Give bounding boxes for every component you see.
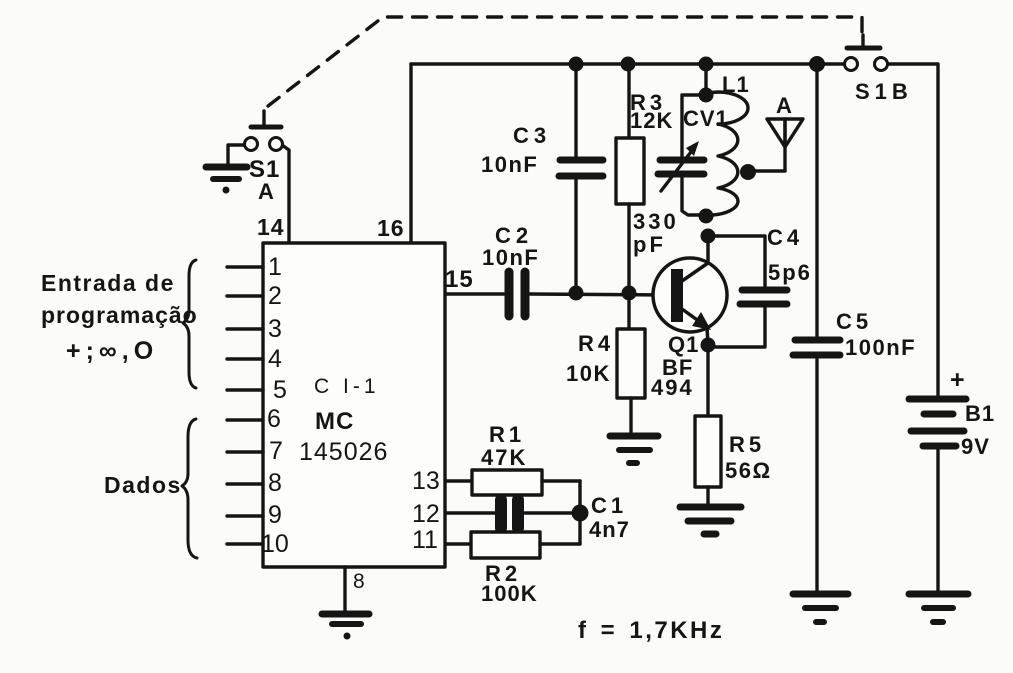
svg-text:9: 9: [268, 501, 282, 529]
svg-text:330: 330: [633, 209, 679, 234]
svg-text:100K: 100K: [481, 581, 538, 606]
svg-text:A: A: [258, 179, 275, 204]
svg-text:145026: 145026: [299, 438, 388, 466]
svg-text:MC: MC: [315, 408, 354, 435]
svg-text:f = 1,7KHz: f = 1,7KHz: [578, 617, 724, 644]
svg-text:R1: R1: [489, 422, 525, 447]
svg-text:56Ω: 56Ω: [725, 458, 772, 483]
svg-text:pF: pF: [633, 232, 666, 257]
svg-text:100nF: 100nF: [845, 335, 916, 360]
svg-text:L1: L1: [722, 72, 750, 97]
svg-text:3: 3: [268, 315, 282, 343]
svg-text:1: 1: [268, 253, 282, 281]
svg-text:+;∞,O: +;∞,O: [66, 337, 158, 365]
svg-text:15: 15: [445, 266, 474, 293]
svg-text:Entrada de: Entrada de: [41, 270, 175, 296]
svg-text:4n7: 4n7: [589, 517, 630, 542]
svg-text:CV1: CV1: [683, 106, 729, 131]
svg-text:10: 10: [261, 530, 289, 558]
svg-text:14: 14: [257, 214, 285, 240]
svg-text:9V: 9V: [961, 434, 990, 459]
svg-text:6: 6: [267, 405, 281, 433]
svg-text:+: +: [950, 366, 966, 394]
svg-text:C5: C5: [836, 309, 872, 334]
svg-text:494: 494: [651, 375, 694, 400]
svg-text:C1: C1: [591, 493, 627, 518]
svg-text:10nF: 10nF: [482, 245, 539, 270]
svg-text:5p6: 5p6: [768, 260, 812, 285]
svg-text:B1: B1: [965, 401, 995, 426]
svg-text:Q1: Q1: [668, 332, 699, 357]
svg-text:47K: 47K: [481, 445, 527, 470]
svg-text:R5: R5: [729, 432, 765, 457]
svg-text:A: A: [776, 93, 793, 118]
svg-text:11: 11: [412, 526, 438, 554]
svg-text:S1B: S1B: [855, 79, 913, 104]
svg-text:4: 4: [268, 345, 282, 373]
svg-text:2: 2: [268, 282, 282, 310]
svg-text:Dados: Dados: [104, 472, 182, 498]
svg-text:10nF: 10nF: [481, 152, 538, 177]
svg-text:C3: C3: [513, 123, 551, 148]
svg-text:16: 16: [377, 215, 405, 241]
svg-text:13: 13: [412, 467, 440, 495]
svg-text:8: 8: [268, 469, 282, 497]
svg-text:12K: 12K: [630, 108, 673, 133]
svg-text:5: 5: [273, 376, 287, 404]
svg-text:12: 12: [412, 500, 440, 528]
svg-text:10K: 10K: [566, 361, 611, 386]
svg-text:8: 8: [353, 570, 365, 593]
svg-text:C4: C4: [767, 225, 803, 250]
svg-text:programação: programação: [41, 302, 198, 328]
svg-text:C I-1: C I-1: [314, 375, 380, 398]
svg-text:R4: R4: [578, 331, 614, 356]
svg-text:7: 7: [269, 437, 283, 465]
